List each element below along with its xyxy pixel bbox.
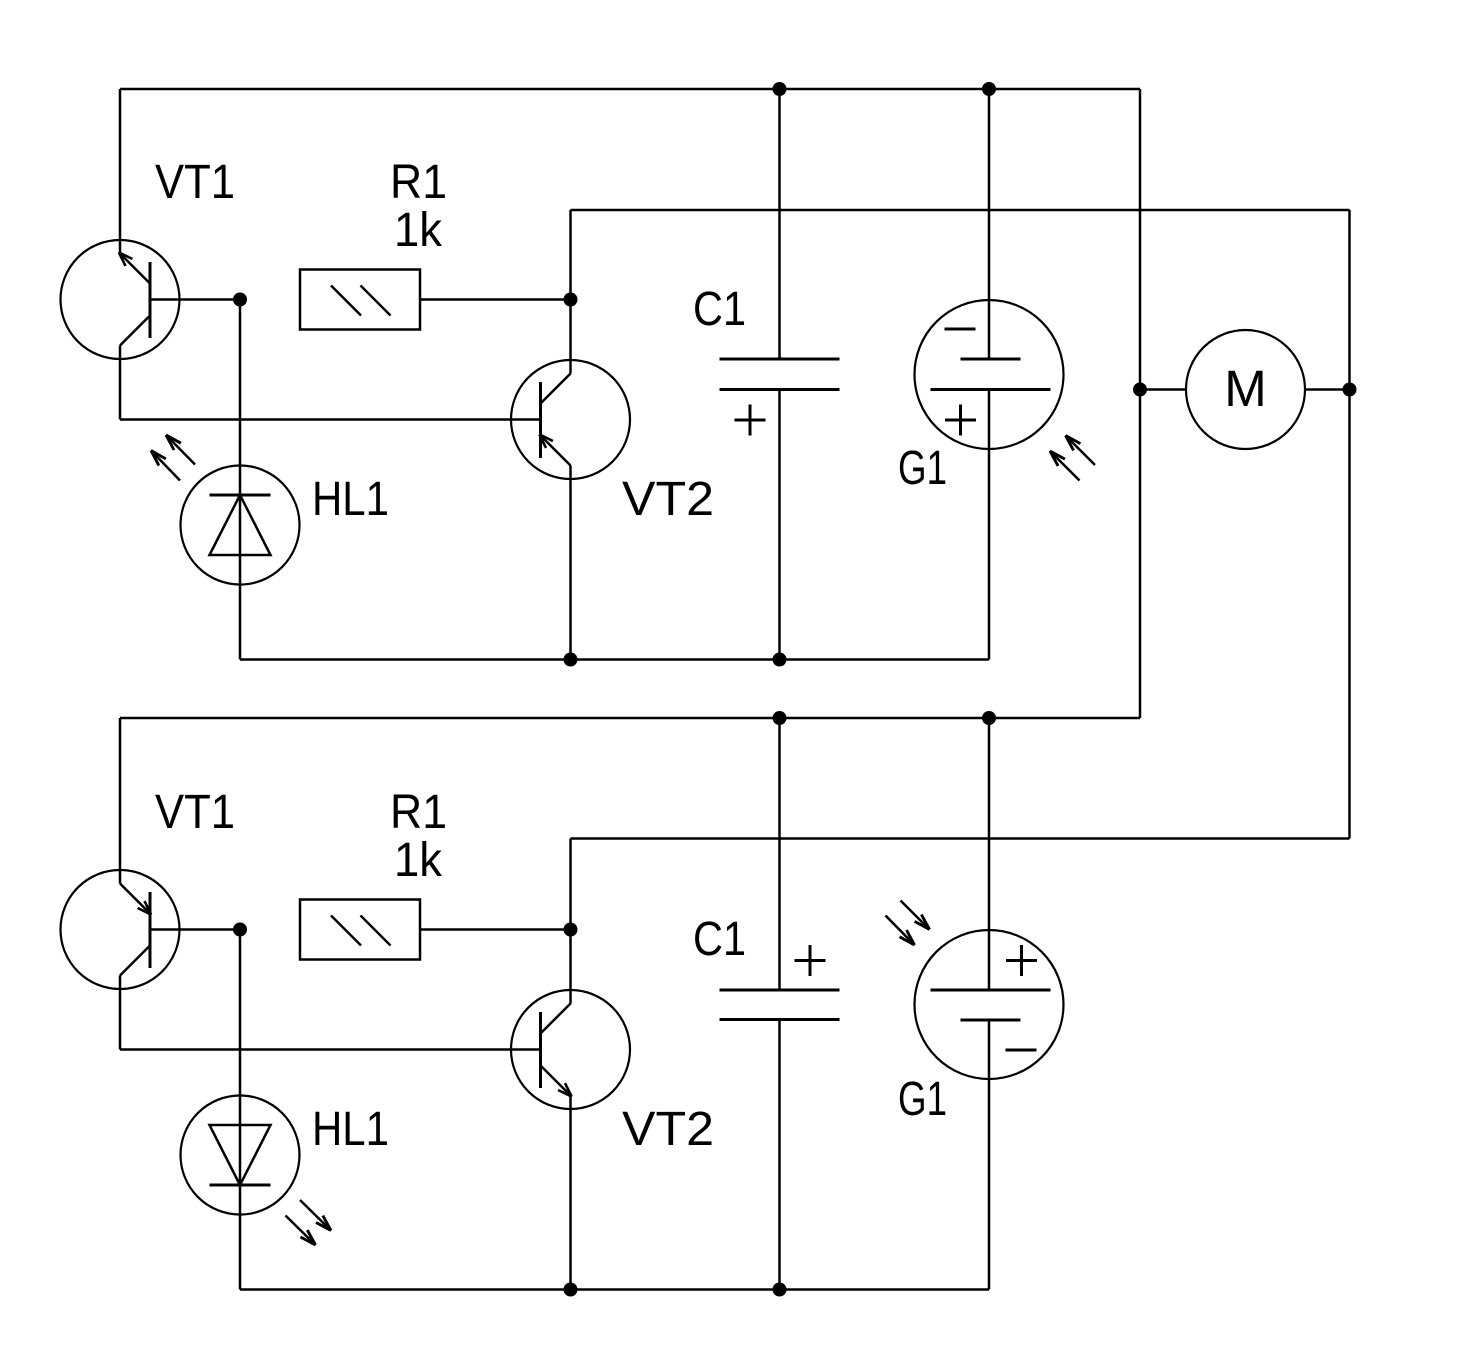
wire C1 top lead (bottom) [778,718,781,990]
light arrow G1 (bottom) 2 [886,916,915,946]
wire G1 top lead (bottom) [988,718,991,990]
transistor VT1 (bottom) [61,870,180,989]
svg-text:G1: G1 [898,1073,947,1126]
wire VT2 emitter vertical [569,466,572,660]
wire R1 to VT2 collector node [420,298,571,301]
wire VT2 collector vertical (bottom) [569,839,572,1004]
light arrow HL1 (top) 1 [166,435,195,465]
LED HL1 (bottom) [181,1096,300,1215]
wire VT1 emitter lead (bottom) [119,976,122,1050]
svg-text:HL1: HL1 [312,473,389,526]
junction node R1 / VT2 collector branch [564,293,578,307]
wire bottom rail (top circuit) [240,658,989,661]
svg-text:M: M [1224,360,1266,417]
motor M [1186,330,1305,449]
wire VT2 collector vertical [569,210,572,374]
wire far-right vertical x=1349.5 [1348,210,1351,839]
svg-text:VT2: VT2 [622,473,714,526]
wire VT2 emitter vertical (bottom) [569,1096,572,1290]
svg-text:HL1: HL1 [312,1103,389,1156]
junction C1 / top rail [773,82,787,96]
wire C1 bottom lead (bottom) [778,1020,781,1290]
wire second rail (top circuit) [571,209,1350,212]
wire G1 bottom lead [988,390,991,660]
svg-text:1k: 1k [394,834,443,887]
wire C1 bottom lead [778,390,781,660]
wire VT1 emitter lead [119,346,122,420]
svg-text:G1: G1 [898,442,947,495]
wire G1 top lead [988,89,991,359]
light arrow G1 (top) 1 [1066,436,1096,466]
wire R1 to VT2 collector node (bottom) [420,928,571,931]
wire G1 bottom lead (bottom) [988,1020,991,1290]
wire C1 top lead [778,89,781,359]
light arrow G1 (bottom) 1 [901,901,930,930]
wire HL1 branch vertical (bottom) [239,930,242,1290]
junction G1 / top rail (bottom) [982,711,996,725]
junction VT1 base / R1 / HL1 (bottom) [233,923,247,937]
polarity + of C1 (top) [735,405,766,436]
wire top rail (bottom circuit) [120,717,1140,720]
wire VT1 collector lead (bottom) [119,718,122,884]
wire second rail (bottom circuit) [571,837,1350,840]
wire motor left lead [1140,388,1186,391]
junction VT2 emitter / bottom rail [564,653,578,667]
wire bottom rail (bottom circuit) [240,1288,989,1291]
junction C1 / top rail (bottom) [773,711,787,725]
svg-text:1k: 1k [394,204,443,257]
capacitor C1 (top) [720,358,840,361]
polarity + of C1 (bottom) [795,945,826,976]
svg-text:VT1: VT1 [155,156,235,209]
light arrow G1 (top) 2 [1050,451,1080,481]
wire VT1 base to node (bottom) [150,928,240,931]
wire VT1 emitter to VT2 base [120,418,540,421]
wire VT1 collector lead [119,89,122,254]
light arrow HL1 (top) 2 [151,451,180,481]
svg-text:C1: C1 [693,283,746,336]
junction motor left node [1133,383,1147,397]
capacitor C1 (bottom) [720,989,840,992]
junction VT2 emitter / bottom rail (bottom) [564,1283,578,1297]
transistor VT2 (bottom) [511,990,630,1109]
wire HL1 branch vertical [239,300,242,660]
transistor VT2 (top) [511,360,630,479]
wire VT1 base to node [150,298,240,301]
wire VT1 emitter to VT2 base (bottom) [120,1048,540,1051]
junction node VT1 base / R1 / HL1 [233,293,247,307]
wire motor right lead [1305,388,1350,391]
svg-text:R1: R1 [390,786,447,839]
LED HL1 (top) [181,466,300,585]
photocell G1 (top) [915,300,1064,449]
wire top rail (top circuit) [120,88,1140,91]
junction R1 / VT2 collector branch (bottom) [564,923,578,937]
light arrow HL1 (bottom) 1 [300,1200,331,1231]
photocell G1 (bottom) [915,930,1064,1079]
svg-text:VT1: VT1 [155,786,235,839]
resistor R1 (top) [300,270,420,330]
wire right vertical x=1140 [1139,89,1142,718]
junction G1 / top rail [982,82,996,96]
svg-text:VT2: VT2 [622,1103,714,1156]
svg-text:C1: C1 [693,913,746,966]
transistor VT1 (top) [61,240,180,359]
junction C1 / bottom rail [773,653,787,667]
junction C1 / bottom rail (bottom) [773,1283,787,1297]
light arrow HL1 (bottom) 2 [286,1216,316,1246]
junction motor right node [1343,383,1357,397]
resistor R1 (bottom) [300,900,420,960]
svg-text:R1: R1 [390,156,447,209]
